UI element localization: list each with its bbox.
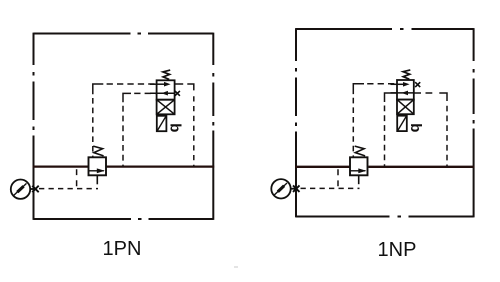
pilot dashed horizontal port b (y=93.4) <box>134 92 156 94</box>
enclosure box 1NP left edge <box>295 28 297 217</box>
main pressure line P (right circuit) <box>295 166 474 168</box>
pilot dashed vertical to V2 spring <box>352 98 354 157</box>
pressure gauge G1 <box>11 180 34 199</box>
enclosure box 1PN top edge <box>34 33 214 35</box>
pilot corner node A (92.8,84) <box>93 84 104 94</box>
label 1NP <box>378 239 417 262</box>
pilot dashed horizontal port a (y=84) left of valve U1 <box>107 83 157 85</box>
plugged port x marker (port b right side) <box>175 91 180 96</box>
pilot dashed vertical to V1 spring <box>92 98 94 157</box>
faint artifact speck <box>234 266 238 268</box>
label 1PN <box>103 238 142 261</box>
reducing valve V2 drain port line <box>358 175 360 184</box>
pilot dashed vertical right leg to P line <box>193 96 195 166</box>
pilot solid stub right of valve U1 port a <box>175 83 184 85</box>
pilot corner node C' (447,93) <box>439 93 447 101</box>
solenoid valve U2 position square 1 <box>397 80 414 100</box>
solenoid valve U1 position square 1 <box>157 80 175 99</box>
pressure gauge G2 <box>271 179 296 198</box>
reducing valve V1 spring <box>93 146 103 156</box>
solenoid valve U1 flow line 1 with right arrow <box>150 83 166 85</box>
main pressure line P (left circuit) <box>33 165 215 167</box>
reducing valve V2 spring <box>355 146 365 156</box>
pilot dashed vertical from node B' to P line <box>384 106 386 167</box>
reducing valve V1 body <box>89 157 107 175</box>
solenoid valve U1 position square 2 (closed, X) <box>157 100 175 115</box>
pilot tap vertical dashed from P line to gauge line (right) <box>337 169 339 188</box>
pilot corner node C (193.8,84) <box>187 84 194 90</box>
pilot tap vertical dashed from P line to gauge line <box>76 169 78 188</box>
pilot dashed vertical right leg to P line (right circuit) <box>446 106 448 167</box>
pilot dashed stub right of valve U2 port b <box>414 92 435 94</box>
gauge G2 needle <box>274 183 287 196</box>
solenoid U1 coil box b <box>157 116 167 131</box>
gauge G1 needle <box>13 183 26 196</box>
solenoid valve U1 spring <box>163 70 170 79</box>
gauge pilot dashed line (right circuit) <box>301 187 360 189</box>
solenoid valve U2 spring <box>403 70 410 79</box>
enclosure box 1PN bottom edge <box>34 218 214 220</box>
solenoid valve U2 position square 2 (closed, X) <box>397 100 414 115</box>
pilot corner node B (123,93.4) <box>123 93 131 102</box>
svg-text:b: b <box>407 123 424 132</box>
test point X marker at gauge connection <box>32 186 39 193</box>
test point X marker at gauge G2 connection <box>293 185 300 192</box>
solenoid valve U1 flow line 2 with left arrow <box>150 92 175 94</box>
enclosure box 1NP right edge <box>473 28 475 217</box>
reducing valve V1 flow path arrow <box>89 170 104 172</box>
enclosure box 1NP top edge <box>296 28 474 30</box>
gauge pilot dashed line (horizontal y=188.6) <box>39 188 98 190</box>
enclosure box 1PN right edge (chain above, solid below) <box>212 33 214 220</box>
pilot dashed vertical from node B to P line <box>122 106 124 167</box>
solenoid valve U2 flow line 2 with left arrow <box>391 92 414 94</box>
reducing valve V2 body <box>350 157 368 175</box>
enclosure box 1NP bottom edge <box>296 216 474 218</box>
plugged port x marker (port a right side, 1NP) <box>415 82 420 87</box>
reducing valve V1 drain port line <box>96 175 98 184</box>
reducing valve V2 flow path arrow <box>351 170 366 172</box>
pilot corner node A' (353.3,83.8) <box>353 84 364 94</box>
pilot dashed horizontal port a (y=83.8) left of valve U2 <box>367 83 397 85</box>
svg-text:b: b <box>167 123 184 132</box>
solenoid U2 coil box b <box>397 116 407 131</box>
enclosure box 1PN left edge (chain above P line, solid below) <box>33 33 35 220</box>
pilot corner node B' (384.5,93) solid L to P line <box>385 93 397 102</box>
solenoid valve U2 flow line 1 with right arrow <box>391 83 405 85</box>
